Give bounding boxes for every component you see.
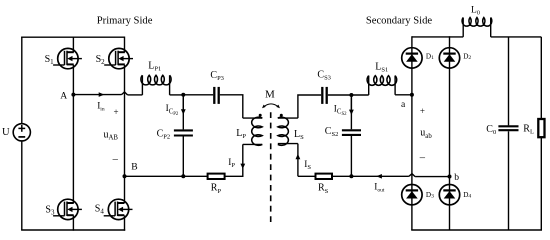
node: C_P2 bottom junction <box>181 174 185 178</box>
transistor S4 <box>104 199 133 219</box>
node a <box>410 93 414 97</box>
current arrow I_Cs2 <box>349 98 354 115</box>
transformer core (dashed line) <box>270 112 272 226</box>
wire: L_P1 to node <box>170 94 184 96</box>
wire: node B to R_P <box>125 175 208 177</box>
current arrow I_in <box>99 92 105 97</box>
svg-text:Primary Side: Primary Side <box>97 16 153 27</box>
wire: C_P2 down to bottom node <box>182 137 184 177</box>
diode D2 <box>439 48 459 68</box>
wire: L_S bottom riser <box>297 144 299 177</box>
current arrow I_out <box>376 174 382 179</box>
resistor R_P <box>208 174 225 179</box>
svg-text:U: U <box>2 127 10 138</box>
wire: L_S1 to node a <box>395 94 412 96</box>
wire: leg2 drain of S2 <box>124 37 126 53</box>
resistor R_S <box>316 174 333 179</box>
wire: C_0 branch lower <box>508 131 510 230</box>
capacitor C_P2 <box>174 130 193 135</box>
capacitor C_0 <box>498 126 518 130</box>
svg-text:+: + <box>420 106 425 116</box>
inductor L_P (transformer primary) <box>243 117 262 145</box>
wire: junction down to C_S2 <box>350 95 352 129</box>
current arrow I_Cp2 <box>181 98 186 115</box>
node: C_S2 bottom junction <box>349 174 353 178</box>
wire: L_S top to tank wire <box>298 95 321 118</box>
wire: leg1 drain of S1 <box>72 37 74 53</box>
wire: secondary top rail right <box>491 36 542 38</box>
voltage source U <box>13 124 30 141</box>
svg-text:–: – <box>419 153 426 164</box>
wire: leg1 S3 source to bottom rail <box>72 215 74 230</box>
wire: node to C_P3 <box>183 94 213 96</box>
node: tank top junction (primary) <box>181 93 185 97</box>
wire: C_0 branch upper <box>508 37 510 126</box>
wire: R_L branch lower <box>540 137 542 230</box>
wire: leg2 S2 source to S4 drain <box>124 65 126 203</box>
svg-text:Secondary Side: Secondary Side <box>366 15 432 26</box>
svg-text:B: B <box>131 161 137 172</box>
wire: node to L_S1 <box>351 94 368 96</box>
node A <box>71 93 75 97</box>
svg-text:–: – <box>112 154 119 165</box>
wire: junction down to C_P2 <box>182 95 184 130</box>
wire: hop over leg2 <box>122 92 128 95</box>
capacitor C_S3 <box>322 87 326 104</box>
inductor L_P1 <box>141 75 171 95</box>
diode D1 <box>402 48 422 68</box>
inductor L_S1 <box>367 76 397 95</box>
wire: R_L branch upper <box>540 37 542 119</box>
polarity dot (secondary) <box>280 114 283 117</box>
current arrow I_P <box>240 164 245 169</box>
node: tank top junction (secondary) <box>349 93 353 97</box>
wire: hop over diode leg <box>409 174 415 177</box>
wire: diode leg1 (D1/D3) <box>411 36 413 230</box>
wire: C_S2 down to bottom junction <box>350 136 352 176</box>
svg-text:M: M <box>265 89 275 101</box>
svg-text:+: + <box>113 107 118 117</box>
polarity dot (primary) <box>259 114 262 117</box>
wire: left branch upper segment <box>21 37 23 124</box>
wire: R_P to corner up to L_P <box>225 144 243 176</box>
svg-text:A: A <box>60 90 67 101</box>
capacitor C_P3 <box>214 87 218 104</box>
wire: R_S to hop <box>332 175 409 177</box>
current arrow I_S <box>296 154 301 159</box>
svg-text:b: b <box>454 172 459 183</box>
wire: secondary top rail left <box>412 36 463 38</box>
wire: primary top rail <box>21 36 124 38</box>
transistor S2 <box>104 48 133 68</box>
wire: C_S3 to node <box>328 94 352 96</box>
transistor S3 <box>53 199 82 219</box>
wire: leg1 S1 source to S3 drain <box>72 65 74 203</box>
wire: left branch lower segment <box>21 141 23 230</box>
transistor S1 <box>53 48 82 68</box>
wire: leg2 S4 source to bottom rail <box>124 215 126 230</box>
wire: primary bottom rail <box>21 229 125 231</box>
wire: diode leg2 (D2/D4) <box>449 36 451 230</box>
wire: C_P3 to corner and down to L_P <box>220 95 243 118</box>
wire: node A to crossover <box>73 94 121 96</box>
diode D3 <box>402 185 422 205</box>
diode D4 <box>439 185 459 205</box>
coupling arrow M <box>262 104 280 108</box>
node b <box>448 175 452 179</box>
capacitor C_S2 <box>342 130 361 135</box>
wire: hop to node b <box>415 176 449 178</box>
wire: secondary bottom rail <box>411 229 542 231</box>
wire: riser to R_S <box>298 175 316 177</box>
inductor L_S (transformer secondary) <box>278 117 298 145</box>
node B <box>123 174 127 178</box>
resistor R_L <box>538 119 544 137</box>
inductor L_0 <box>462 18 492 37</box>
svg-text:a: a <box>401 99 406 110</box>
wire: crossover to L_P1 <box>128 94 143 96</box>
